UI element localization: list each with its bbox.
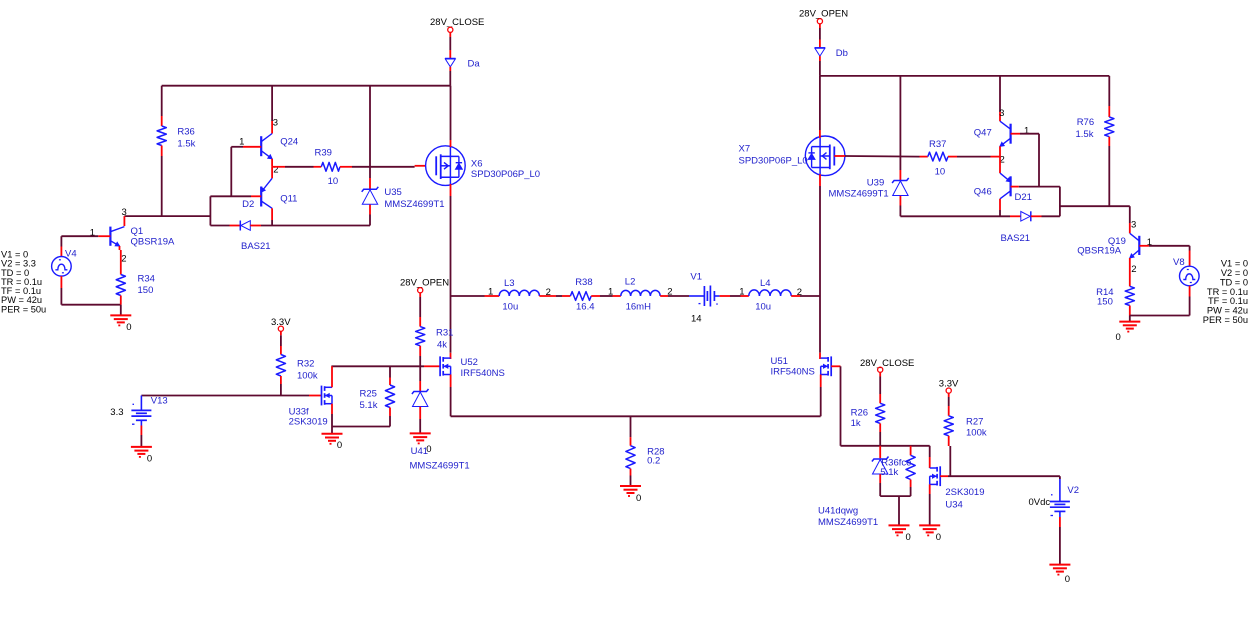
wire U39 top from rail xyxy=(899,76,901,170)
ground 0 R14 xyxy=(1119,321,1140,323)
ground 0 U34 xyxy=(919,524,940,526)
wire base link vertical right xyxy=(1038,134,1040,187)
node 28V_CLOSE terminal circle right xyxy=(878,367,883,372)
svg-text:Q47: Q47 xyxy=(974,128,992,139)
wire Q11 collector to D2 line xyxy=(271,208,273,220)
svg-text:16.4: 16.4 xyxy=(576,301,595,312)
svg-text:BAS21: BAS21 xyxy=(1001,233,1031,244)
wire R14 to V8 bottom line xyxy=(1130,315,1190,317)
svg-text:MMSZ4699T1: MMSZ4699T1 xyxy=(829,189,889,200)
wire V4 bottom lead xyxy=(60,276,62,288)
transistor Q11 xyxy=(260,187,262,207)
wire 28V_OPEN to R31 xyxy=(419,293,421,297)
source V2 battery xyxy=(1050,501,1070,503)
wire 28V_CLOSE to diode Da xyxy=(449,32,451,37)
wire R34 bottom xyxy=(120,296,122,305)
wire 3.3V to R32 xyxy=(280,331,282,335)
wire X7 gate to R37 xyxy=(834,155,845,157)
wire R32 to gate wire xyxy=(280,376,282,384)
svg-text:Da: Da xyxy=(468,59,481,70)
svg-text:1: 1 xyxy=(1024,125,1029,136)
wire left box vertical xyxy=(209,196,211,225)
inductor L4 xyxy=(749,290,791,296)
zener diode U41dqwg xyxy=(872,457,889,462)
wire Q47 base xyxy=(1011,133,1020,135)
svg-text:28V_OPEN: 28V_OPEN xyxy=(400,277,449,288)
resistor R32 xyxy=(276,355,285,377)
wire zener bottom link xyxy=(880,495,910,497)
svg-text:0: 0 xyxy=(126,322,131,333)
wire Q19 emitter to R14 xyxy=(1129,258,1131,286)
wire R38 to L2 xyxy=(591,295,600,297)
wire U33f source to R25 bottom xyxy=(332,426,390,428)
wire R36fce bottom xyxy=(910,480,912,488)
wire ground stem V4 loop xyxy=(120,305,122,316)
svg-text:R27: R27 xyxy=(966,416,983,427)
svg-text:100k: 100k xyxy=(297,370,318,381)
svg-text:2SK3019: 2SK3019 xyxy=(945,487,984,498)
wire L2 to V1 xyxy=(660,295,668,297)
wire Q47 emitter to node 2 xyxy=(999,146,1001,156)
wire U52 source down to bottom rail xyxy=(450,375,452,388)
svg-text:PER = 50u: PER = 50u xyxy=(1,304,46,314)
wire R36 top xyxy=(161,86,163,116)
svg-text:3: 3 xyxy=(273,118,278,129)
nmos U52 xyxy=(439,356,441,376)
wire U33f source down xyxy=(331,404,333,414)
wire U34 source down xyxy=(929,484,931,494)
zener diode U35 xyxy=(362,187,379,192)
wire R39 to X6 gate xyxy=(340,166,352,168)
svg-text:U41dqwg: U41dqwg xyxy=(818,506,858,517)
pmos X7 body diode xyxy=(811,147,813,168)
svg-text:MMSZ4699T1: MMSZ4699T1 xyxy=(410,460,470,471)
wire gate line to U52 xyxy=(331,365,424,367)
resistor R36fce xyxy=(906,455,915,479)
wire V2 to ground xyxy=(1059,511,1061,517)
svg-text:Db: Db xyxy=(836,48,848,59)
resistor R26 xyxy=(876,403,885,423)
svg-text:28V_OPEN: 28V_OPEN xyxy=(799,8,848,19)
svg-text:R76: R76 xyxy=(1077,117,1094,128)
wire 28V_OPEN to diode Db xyxy=(819,24,821,28)
svg-text:V13: V13 xyxy=(151,395,168,406)
resistor R39 xyxy=(321,162,340,171)
svg-text:3: 3 xyxy=(999,108,1004,119)
svg-text:0Vdc: 0Vdc xyxy=(1029,497,1051,508)
wire R26 to junction xyxy=(879,423,881,432)
resistor R76 xyxy=(1105,117,1114,137)
source V8 xyxy=(1180,266,1200,286)
pmos X6 body diode xyxy=(458,156,460,177)
zener diode U39 xyxy=(892,178,909,183)
svg-text:Q24: Q24 xyxy=(280,137,298,148)
pmos X6 circle xyxy=(426,146,466,186)
wire R28 to ground xyxy=(630,469,632,476)
ground 0 U41 xyxy=(410,432,431,434)
wire Q24 emitter to node 2 xyxy=(271,159,273,167)
svg-text:4k: 4k xyxy=(437,339,447,350)
resistor R37 xyxy=(928,152,948,161)
pmos X7 channel bar xyxy=(829,145,831,170)
inductor L3 xyxy=(499,290,539,296)
wire right box vertical xyxy=(1059,187,1061,217)
wire V13 to U33f gate xyxy=(141,395,309,397)
svg-text:1k: 1k xyxy=(851,418,861,429)
resistor R34 xyxy=(116,275,125,296)
wire U51 gate line horizontal xyxy=(841,445,930,447)
svg-text:3.3: 3.3 xyxy=(110,407,123,418)
zener diode U41 xyxy=(412,389,429,394)
wire R36 bottom xyxy=(161,146,163,157)
wire Q46 emitter from node 2 xyxy=(999,157,1001,174)
svg-text:2: 2 xyxy=(121,253,126,264)
wire Q19 base to V8 xyxy=(1139,245,1149,247)
wire Q24 base xyxy=(243,146,261,148)
pmos X7 gate bar xyxy=(833,147,835,166)
transistor Q46 xyxy=(1009,176,1011,196)
ground 0 U33f xyxy=(322,433,343,435)
ground 0 V2 xyxy=(1049,564,1070,566)
source V13 battery xyxy=(140,396,142,411)
wire R36fce top xyxy=(910,446,912,456)
wire R31 junction down to zener U41 xyxy=(419,366,421,381)
svg-text:R38: R38 xyxy=(575,277,592,288)
wire D21 cathode line xyxy=(900,215,1010,217)
pmos X6 middle stub with open arrow xyxy=(441,165,451,167)
svg-text:D2: D2 xyxy=(242,199,254,210)
wire base link vertical xyxy=(230,147,232,197)
wire U33f drain up to gate line xyxy=(331,366,333,387)
svg-text:SPD30P06P_L0: SPD30P06P_L0 xyxy=(471,169,540,180)
wire L4 to X7 column xyxy=(791,295,800,297)
svg-text:0: 0 xyxy=(936,532,941,543)
svg-text:R37: R37 xyxy=(929,139,946,150)
wire Q1 emitter to R34 xyxy=(119,246,121,250)
wire U51 gate right and down xyxy=(831,365,840,367)
wire Db to right rail junction xyxy=(819,56,821,61)
svg-text:U35: U35 xyxy=(384,187,401,198)
svg-text:1: 1 xyxy=(608,287,613,298)
svg-text:U51: U51 xyxy=(771,356,788,367)
svg-text:10u: 10u xyxy=(755,302,771,313)
svg-text:U52: U52 xyxy=(461,357,478,368)
wire V1 to L4 xyxy=(720,295,730,297)
nmos U34 xyxy=(939,466,941,486)
wire R31 to gate line junction xyxy=(419,346,421,356)
svg-text:R31: R31 xyxy=(436,327,453,338)
resistor R28 xyxy=(626,446,635,469)
pmos X6 source stub xyxy=(441,176,459,178)
wire node 2 to R39 xyxy=(272,166,285,168)
nmos U51 xyxy=(830,356,832,376)
wire Da to top rail junction xyxy=(449,67,451,71)
pmos X6 internal vertical xyxy=(449,147,451,184)
wire down to U34 drain xyxy=(929,446,931,457)
node 3.3V terminal circle left xyxy=(278,326,283,331)
svg-text:L2: L2 xyxy=(625,277,636,288)
wire U34 gate right to V2 line xyxy=(940,475,948,477)
svg-text:R26: R26 xyxy=(851,408,868,419)
diode D21 xyxy=(1030,211,1032,221)
wire X7 source down to mid rail and U51 xyxy=(819,174,821,186)
wire R76 bottom to collector line xyxy=(1108,137,1110,146)
svg-text:0: 0 xyxy=(636,493,641,504)
wire 28V_CLOSE to R26 xyxy=(879,372,881,376)
svg-text:U34: U34 xyxy=(945,499,962,510)
svg-text:14: 14 xyxy=(691,314,702,325)
svg-text:Q1: Q1 xyxy=(131,226,144,237)
svg-text:3: 3 xyxy=(1131,219,1136,230)
svg-text:Q46: Q46 xyxy=(974,187,992,198)
wire Q47 collector from rail xyxy=(999,76,1001,112)
pmos X6 channel bar xyxy=(440,154,442,179)
ground 0 V13 xyxy=(131,446,152,448)
svg-text:5.1k: 5.1k xyxy=(360,400,378,411)
svg-text:X7: X7 xyxy=(739,144,751,155)
svg-text:0: 0 xyxy=(906,532,911,543)
svg-text:10: 10 xyxy=(328,176,339,187)
wire R76 from rail xyxy=(1108,76,1110,106)
wire R25 bottom xyxy=(389,408,391,417)
svg-text:2SK3019: 2SK3019 xyxy=(289,416,328,427)
svg-text:IRF540NS: IRF540NS xyxy=(461,368,505,379)
node 28V_OPEN terminal circle top xyxy=(817,19,822,24)
wire D21 to right box xyxy=(1031,215,1042,217)
svg-text:Q11: Q11 xyxy=(280,194,297,205)
wire D2 anode line xyxy=(210,225,229,227)
svg-text:QBSR19A: QBSR19A xyxy=(1077,246,1121,257)
wire mid rail left segment xyxy=(451,295,485,297)
svg-text:150: 150 xyxy=(138,285,154,296)
svg-text:1.5k: 1.5k xyxy=(1076,129,1094,140)
resistor R31 xyxy=(416,327,425,346)
pmos X7 source stub xyxy=(812,167,830,169)
nmos U33f xyxy=(321,386,323,406)
svg-text:BAS21: BAS21 xyxy=(241,241,271,252)
resistor R36 xyxy=(157,126,166,146)
wire 3.3V to R27 xyxy=(948,393,950,397)
wire X6 source down to mid rail and U52 xyxy=(450,184,452,196)
diode D2 xyxy=(239,221,241,231)
pmos X7 middle stub with open arrow xyxy=(820,155,830,157)
svg-text:PER = 50u: PER = 50u xyxy=(1203,315,1248,325)
transistor Q1 xyxy=(109,227,111,246)
wire U35 bottom xyxy=(369,205,371,215)
wire R25 top xyxy=(389,366,391,377)
svg-text:28V_CLOSE: 28V_CLOSE xyxy=(860,358,914,369)
svg-text:10: 10 xyxy=(935,166,946,177)
svg-text:U39: U39 xyxy=(867,178,884,189)
resistor R25 xyxy=(385,385,394,408)
svg-text:R36: R36 xyxy=(177,126,194,137)
wire U41 to ground xyxy=(419,407,421,419)
svg-text:0.2: 0.2 xyxy=(647,455,660,466)
diode Db xyxy=(815,47,826,49)
wire V4 to R34 bottom xyxy=(61,304,121,306)
wire V8 bottom lead xyxy=(1189,286,1191,297)
wire Q19 collector line xyxy=(1060,205,1130,207)
wire bottom rail xyxy=(451,415,821,417)
wire V2 top lead xyxy=(1059,476,1061,479)
svg-text:2: 2 xyxy=(1131,264,1136,275)
node 3.3V terminal circle right xyxy=(946,388,951,393)
svg-text:U41: U41 xyxy=(411,446,428,457)
svg-text:R34: R34 xyxy=(138,274,155,285)
wire Q1 collector stub xyxy=(123,216,125,226)
svg-text:28V_CLOSE: 28V_CLOSE xyxy=(430,17,484,28)
svg-text:150: 150 xyxy=(1097,297,1113,308)
svg-text:1: 1 xyxy=(488,286,493,297)
svg-text:IRF540NS: IRF540NS xyxy=(771,366,815,377)
svg-text:V1: V1 xyxy=(690,271,702,282)
wire X6 drain up to rail xyxy=(450,86,452,140)
wire top rail right block xyxy=(820,75,1109,77)
wire R28 stem xyxy=(630,416,632,437)
wire U35 top from rail xyxy=(369,86,371,178)
wire Q24 collector from rail xyxy=(271,86,273,121)
wire Q46 collector to D21 line xyxy=(999,199,1001,210)
transistor Q24 xyxy=(260,136,262,156)
node 28V_OPEN terminal circle left xyxy=(418,288,423,293)
svg-text:0: 0 xyxy=(1116,332,1121,343)
wire L3 to R38 xyxy=(539,295,556,297)
wire ground stem zener xyxy=(898,496,900,525)
transistor Q19 xyxy=(1138,236,1140,255)
wire junction to zener U41dqwg xyxy=(879,446,881,459)
wire U39 bottom to D21 line xyxy=(899,196,901,206)
svg-text:X6: X6 xyxy=(471,158,483,169)
svg-text:V4: V4 xyxy=(65,248,77,259)
svg-text:QBSR19A: QBSR19A xyxy=(131,237,175,248)
wire Q1 collector line xyxy=(124,215,210,217)
wire ground stem R14 xyxy=(1129,316,1131,322)
wire X7 drain up to rail xyxy=(819,76,821,130)
svg-text:L3: L3 xyxy=(504,278,515,289)
svg-text:0: 0 xyxy=(1065,574,1070,585)
svg-text:5.1k: 5.1k xyxy=(880,467,898,478)
wire V8 top lead xyxy=(1189,246,1191,251)
svg-text:10u: 10u xyxy=(502,302,518,313)
svg-text:16mH: 16mH xyxy=(626,301,651,312)
wire R37 to Q47 node xyxy=(948,156,957,158)
ground 0 zener R36fce xyxy=(889,524,910,526)
svg-text:MMSZ4699T1: MMSZ4699T1 xyxy=(818,517,878,528)
resistor R38 xyxy=(570,292,591,301)
pmos X7 drain stub xyxy=(812,146,830,148)
wire V13 to ground xyxy=(140,420,142,425)
wire U51 source down to bottom rail xyxy=(820,375,822,388)
wire Q11 emitter from node 2 xyxy=(271,167,273,179)
svg-text:100k: 100k xyxy=(966,428,987,439)
diode Da xyxy=(445,58,456,60)
pmos X6 drain stub xyxy=(441,155,459,157)
ground 0 V4 loop xyxy=(110,314,131,316)
transistor Q47 xyxy=(1009,124,1011,144)
svg-text:0: 0 xyxy=(147,453,152,464)
pmos X6 gate bar xyxy=(435,156,437,175)
wire top rail left block xyxy=(162,85,451,87)
source V1 battery xyxy=(689,295,704,297)
svg-text:R39: R39 xyxy=(315,148,332,159)
wire R14 bottom xyxy=(1129,306,1131,316)
svg-text:R25: R25 xyxy=(360,388,377,399)
svg-text:1: 1 xyxy=(739,287,744,298)
inductor L2 xyxy=(621,290,660,296)
resistor R27 xyxy=(944,416,953,436)
pmos X7 circle xyxy=(805,136,845,176)
svg-text:V8: V8 xyxy=(1173,257,1185,268)
resistor R14 xyxy=(1125,286,1134,305)
wire V4 to Q1 base xyxy=(98,235,110,237)
wire R27 to V2 line xyxy=(948,436,950,446)
wire ground stem U33f xyxy=(331,427,333,434)
wire U41dqwg bottom xyxy=(879,474,881,483)
wire Q46 base xyxy=(1011,186,1019,188)
svg-text:D21: D21 xyxy=(1015,192,1032,203)
source V4 xyxy=(52,257,72,277)
ground 0 R28 xyxy=(620,485,641,487)
node 28V_CLOSE terminal circle xyxy=(448,27,453,32)
svg-text:L4: L4 xyxy=(760,278,771,289)
svg-text:R32: R32 xyxy=(297,358,314,369)
wire V4 top lead xyxy=(60,236,62,246)
svg-text:SPD30P06P_L0: SPD30P06P_L0 xyxy=(739,155,808,166)
svg-text:V2: V2 xyxy=(1067,485,1079,496)
pmos X7 internal vertical xyxy=(819,138,821,175)
svg-text:0: 0 xyxy=(337,440,342,451)
svg-text:1.5k: 1.5k xyxy=(177,138,195,149)
svg-text:MMSZ4699T1: MMSZ4699T1 xyxy=(384,199,444,210)
wire Q11 base xyxy=(251,195,261,197)
wire D2 to Q11 collector and U35 xyxy=(250,225,261,227)
wire Q19 collector stub xyxy=(1129,206,1131,223)
